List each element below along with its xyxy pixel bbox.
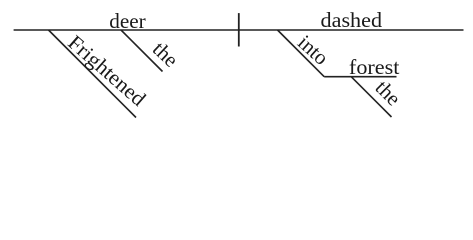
svg-text:into: into <box>293 30 333 70</box>
svg-text:the: the <box>148 37 183 72</box>
main baseline <box>14 29 464 31</box>
svg-text:the: the <box>371 75 406 110</box>
modifier line the (left) <box>121 30 163 72</box>
modifier line Frightened <box>49 30 137 118</box>
preposition line into <box>278 30 325 77</box>
sentence diagram: Frightened deer | dashed into the forest <box>0 0 473 128</box>
svg-text:deer: deer <box>109 9 146 33</box>
svg-text:Frightened: Frightened <box>63 30 151 111</box>
modifier line the (right) <box>351 77 391 117</box>
object line forest <box>324 76 396 78</box>
svg-text:dashed: dashed <box>321 8 383 32</box>
subject-verb divider <box>238 13 240 46</box>
svg-text:forest: forest <box>349 55 400 79</box>
